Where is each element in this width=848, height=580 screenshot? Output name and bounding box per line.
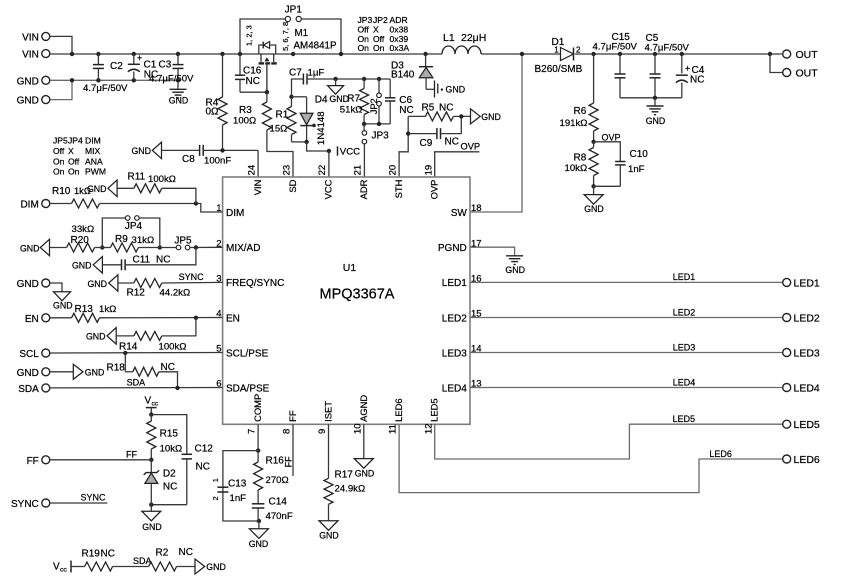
svg-text:4.7μF/50V: 4.7μF/50V xyxy=(645,42,690,53)
svg-text:X: X xyxy=(68,146,74,156)
svg-text:R8: R8 xyxy=(574,153,587,164)
svg-text:GND: GND xyxy=(505,265,525,275)
svg-text:MPQ3367A: MPQ3367A xyxy=(320,287,395,303)
svg-text:JP3: JP3 xyxy=(372,131,390,142)
svg-text:SYNC: SYNC xyxy=(179,272,205,282)
svg-text:cc: cc xyxy=(152,401,159,408)
svg-text:R10: R10 xyxy=(52,186,71,197)
svg-text:MIX/AD: MIX/AD xyxy=(226,243,260,254)
svg-text:GND: GND xyxy=(446,85,466,95)
svg-text:R9: R9 xyxy=(115,234,128,245)
svg-text:GND: GND xyxy=(53,300,73,310)
svg-text:22: 22 xyxy=(317,165,328,176)
svg-text:GND: GND xyxy=(86,332,106,342)
svg-text:0Ω: 0Ω xyxy=(206,107,220,118)
svg-text:VIN: VIN xyxy=(22,50,39,61)
svg-text:JP4: JP4 xyxy=(68,136,83,146)
svg-text:R3: R3 xyxy=(239,105,252,116)
svg-text:+: + xyxy=(137,53,142,63)
svg-text:V: V xyxy=(53,561,60,572)
svg-text:LED1: LED1 xyxy=(794,277,820,289)
svg-text:100kΩ: 100kΩ xyxy=(159,341,187,352)
svg-text:GND: GND xyxy=(249,539,269,549)
svg-text:22μH: 22μH xyxy=(461,32,486,44)
svg-text:23: 23 xyxy=(282,165,293,176)
svg-text:GND: GND xyxy=(646,116,666,126)
svg-text:1N4148: 1N4148 xyxy=(316,111,327,145)
svg-text:SDA: SDA xyxy=(127,378,146,388)
svg-text:LED2: LED2 xyxy=(442,313,467,324)
svg-text:100Ω: 100Ω xyxy=(233,116,256,127)
svg-text:SCL/PSE: SCL/PSE xyxy=(226,348,269,359)
svg-text:On: On xyxy=(358,43,370,53)
svg-text:FF: FF xyxy=(284,456,294,467)
svg-text:4.7μF/50V: 4.7μF/50V xyxy=(149,74,194,85)
svg-text:7: 7 xyxy=(247,429,258,434)
svg-text:VIN: VIN xyxy=(22,32,39,43)
svg-text:M1: M1 xyxy=(295,28,309,39)
svg-text:NC: NC xyxy=(179,547,193,558)
svg-text:JP5: JP5 xyxy=(53,136,68,146)
svg-text:GND: GND xyxy=(85,367,105,377)
svg-text:NC: NC xyxy=(246,76,260,87)
svg-text:PGND: PGND xyxy=(438,243,467,254)
svg-text:C9: C9 xyxy=(420,138,433,149)
svg-text:1nF: 1nF xyxy=(230,493,247,504)
svg-text:SDA: SDA xyxy=(133,556,152,566)
svg-text:AM4841P: AM4841P xyxy=(294,41,337,52)
svg-text:44.2kΩ: 44.2kΩ xyxy=(160,287,191,298)
svg-text:10kΩ: 10kΩ xyxy=(565,163,588,174)
svg-text:4.7μF/50V: 4.7μF/50V xyxy=(593,41,638,52)
svg-text:LED2: LED2 xyxy=(673,307,696,317)
svg-text:LED6: LED6 xyxy=(709,449,732,459)
svg-text:GND: GND xyxy=(169,96,189,106)
svg-text:OVP: OVP xyxy=(602,133,621,143)
svg-text:DIM: DIM xyxy=(85,136,101,146)
svg-text:FF: FF xyxy=(287,410,298,422)
svg-text:OVP: OVP xyxy=(429,180,440,200)
svg-text:SCL: SCL xyxy=(19,349,39,360)
svg-text:SDA/PSE: SDA/PSE xyxy=(226,383,270,394)
svg-text:100kΩ: 100kΩ xyxy=(148,174,176,185)
svg-text:JP1: JP1 xyxy=(285,5,303,16)
svg-text:ISET: ISET xyxy=(323,401,334,422)
svg-text:OVP: OVP xyxy=(461,141,481,151)
svg-text:LED6: LED6 xyxy=(794,454,820,466)
svg-text:C7: C7 xyxy=(289,68,302,79)
svg-text:GND: GND xyxy=(17,279,39,290)
svg-text:PWM: PWM xyxy=(85,167,106,177)
svg-text:470nF: 470nF xyxy=(266,511,293,522)
svg-text:NC: NC xyxy=(690,75,704,86)
svg-text:270Ω: 270Ω xyxy=(266,475,289,486)
svg-text:GND: GND xyxy=(131,146,151,156)
svg-text:GND: GND xyxy=(87,184,107,194)
svg-text:1kΩ: 1kΩ xyxy=(99,304,116,315)
svg-text:On: On xyxy=(373,43,385,53)
svg-text:GND: GND xyxy=(319,531,339,541)
svg-text:LED3: LED3 xyxy=(673,342,696,352)
svg-text:L1: L1 xyxy=(443,32,455,44)
svg-text:R14: R14 xyxy=(119,341,138,352)
svg-text:DIM: DIM xyxy=(226,208,244,219)
svg-text:24: 24 xyxy=(247,165,258,176)
svg-text:R2: R2 xyxy=(156,547,169,558)
svg-text:R19: R19 xyxy=(82,549,101,560)
svg-text:NC: NC xyxy=(101,549,115,560)
svg-text:SW: SW xyxy=(451,208,468,219)
svg-text:NC: NC xyxy=(156,255,170,266)
svg-text:SD: SD xyxy=(287,179,298,192)
svg-text:9: 9 xyxy=(317,429,328,434)
svg-text:R5: R5 xyxy=(422,103,435,114)
svg-text:COMP: COMP xyxy=(252,394,263,422)
svg-text:GND: GND xyxy=(20,243,40,253)
svg-text:R15: R15 xyxy=(160,428,179,439)
svg-text:LED5: LED5 xyxy=(673,414,696,424)
svg-text:12: 12 xyxy=(423,423,434,434)
svg-text:21: 21 xyxy=(352,165,363,176)
svg-text:1, 2, 3: 1, 2, 3 xyxy=(244,25,253,46)
svg-text:AGND: AGND xyxy=(358,395,369,422)
svg-text:24.9kΩ: 24.9kΩ xyxy=(335,483,366,494)
svg-text:On: On xyxy=(53,167,65,177)
svg-text:Off: Off xyxy=(53,146,65,156)
svg-text:11: 11 xyxy=(388,424,399,434)
svg-text:Off: Off xyxy=(68,156,80,166)
svg-text:cc: cc xyxy=(60,566,67,573)
svg-text:FF: FF xyxy=(27,456,39,467)
svg-text:33kΩ: 33kΩ xyxy=(72,224,95,235)
svg-text:FREQ/SYNC: FREQ/SYNC xyxy=(226,278,284,289)
svg-text:JP2: JP2 xyxy=(369,98,379,114)
svg-text:GND: GND xyxy=(355,468,375,478)
svg-text:ADR: ADR xyxy=(358,179,369,199)
svg-text:LED5: LED5 xyxy=(429,398,440,421)
svg-text:C16: C16 xyxy=(243,66,262,77)
svg-text:C14: C14 xyxy=(269,496,288,507)
svg-text:GND: GND xyxy=(481,112,501,122)
svg-text:10: 10 xyxy=(352,423,363,434)
svg-text:U1: U1 xyxy=(343,262,357,274)
svg-text:191kΩ: 191kΩ xyxy=(560,118,588,129)
svg-text:VCC: VCC xyxy=(340,146,360,157)
svg-text:C2: C2 xyxy=(110,61,123,72)
svg-text:C12: C12 xyxy=(195,444,214,455)
svg-text:R20: R20 xyxy=(71,235,90,246)
svg-text:GND: GND xyxy=(17,368,39,379)
svg-text:C8: C8 xyxy=(182,154,195,165)
svg-text:SYNC: SYNC xyxy=(81,493,107,503)
svg-text:EN: EN xyxy=(226,313,240,324)
svg-text:C11: C11 xyxy=(133,255,151,266)
svg-text:STH: STH xyxy=(393,180,404,199)
svg-text:1nF: 1nF xyxy=(628,164,645,175)
svg-text:B140: B140 xyxy=(391,69,415,80)
svg-text:JP4: JP4 xyxy=(125,221,143,232)
svg-text:R12: R12 xyxy=(127,287,146,298)
svg-text:GND: GND xyxy=(17,76,39,87)
svg-text:2: 2 xyxy=(576,45,581,54)
svg-text:GND: GND xyxy=(329,94,349,104)
svg-text:20: 20 xyxy=(388,165,399,176)
svg-text:GND: GND xyxy=(87,279,107,289)
svg-text:EN: EN xyxy=(25,314,39,325)
svg-text:GND: GND xyxy=(72,261,92,271)
svg-text:19: 19 xyxy=(423,165,434,176)
svg-text:LED3: LED3 xyxy=(794,347,820,359)
svg-text:5, 6, 7, 8: 5, 6, 7, 8 xyxy=(281,22,290,51)
svg-text:GND: GND xyxy=(584,204,604,214)
svg-text:LED5: LED5 xyxy=(794,419,820,431)
svg-text:1: 1 xyxy=(211,478,220,482)
svg-text:NC: NC xyxy=(196,462,210,473)
svg-text:SYNC: SYNC xyxy=(11,499,39,510)
svg-text:31kΩ: 31kΩ xyxy=(132,235,155,246)
svg-text:C10: C10 xyxy=(630,149,649,160)
svg-text:4.7μF/50V: 4.7μF/50V xyxy=(83,83,128,94)
svg-text:100nF: 100nF xyxy=(204,156,231,167)
svg-text:MIX: MIX xyxy=(85,146,101,156)
svg-text:VCC: VCC xyxy=(323,179,334,199)
svg-text:+: + xyxy=(685,64,690,74)
svg-text:LED6: LED6 xyxy=(393,398,404,421)
svg-text:C13: C13 xyxy=(228,478,247,489)
svg-text:FF: FF xyxy=(126,450,137,460)
svg-text:V: V xyxy=(145,395,152,406)
svg-text:B260/SMB: B260/SMB xyxy=(535,64,583,75)
svg-text:DIM: DIM xyxy=(20,200,38,211)
svg-text:R13: R13 xyxy=(75,304,94,315)
svg-text:ANA: ANA xyxy=(85,156,103,166)
svg-text:GND: GND xyxy=(142,522,162,532)
svg-text:LED2: LED2 xyxy=(794,312,820,324)
svg-text:R16: R16 xyxy=(266,455,285,466)
svg-text:On: On xyxy=(68,167,80,177)
svg-text:51kΩ: 51kΩ xyxy=(340,105,363,116)
svg-text:10kΩ: 10kΩ xyxy=(160,443,183,454)
svg-text:VIN: VIN xyxy=(252,180,263,196)
svg-text:15Ω: 15Ω xyxy=(270,124,288,135)
svg-text:GND: GND xyxy=(17,96,39,107)
svg-text:LED4: LED4 xyxy=(673,377,696,387)
svg-text:2: 2 xyxy=(211,496,220,500)
svg-text:1: 1 xyxy=(554,45,559,54)
svg-text:LED3: LED3 xyxy=(442,348,467,359)
svg-text:LED4: LED4 xyxy=(442,383,467,394)
svg-text:NC: NC xyxy=(445,137,459,148)
svg-text:JP5: JP5 xyxy=(174,236,192,247)
svg-text:NC: NC xyxy=(439,103,453,114)
svg-text:R17: R17 xyxy=(335,469,354,480)
svg-text:D2: D2 xyxy=(163,468,176,479)
svg-text:8: 8 xyxy=(282,429,293,434)
svg-text:GND: GND xyxy=(206,562,226,572)
svg-text:D4: D4 xyxy=(315,94,328,105)
svg-text:R18: R18 xyxy=(107,362,126,373)
svg-text:1μF: 1μF xyxy=(308,68,325,79)
svg-text:LED1: LED1 xyxy=(442,278,467,289)
svg-text:R7: R7 xyxy=(347,94,360,105)
svg-text:NC: NC xyxy=(163,482,177,493)
svg-text:R6: R6 xyxy=(574,106,587,117)
svg-text:18: 18 xyxy=(471,203,482,214)
svg-text:OUT: OUT xyxy=(796,67,819,79)
svg-text:R1: R1 xyxy=(276,110,289,121)
svg-text:LED1: LED1 xyxy=(673,272,696,282)
svg-text:NC: NC xyxy=(161,362,175,373)
svg-text:On: On xyxy=(53,156,65,166)
svg-text:SDA: SDA xyxy=(18,384,39,395)
svg-text:NC: NC xyxy=(399,105,413,116)
svg-text:LED4: LED4 xyxy=(794,382,820,394)
svg-text:C3: C3 xyxy=(159,60,172,71)
svg-text:0x3A: 0x3A xyxy=(390,43,410,53)
svg-text:OUT: OUT xyxy=(796,49,819,61)
svg-text:R11: R11 xyxy=(128,172,146,183)
